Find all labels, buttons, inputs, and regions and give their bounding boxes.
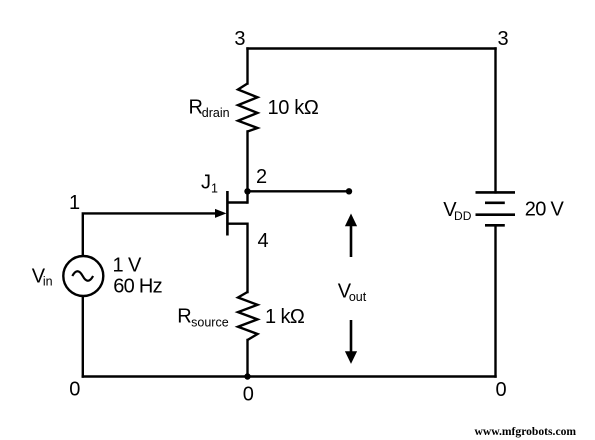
wire left rail: bottom rail up to Vin — [82, 298, 84, 377]
wire source lead down to R_source — [246, 224, 248, 292]
Vout arrow down — [345, 320, 357, 364]
svg-text:4: 4 — [258, 230, 269, 252]
svg-text:0: 0 — [243, 383, 254, 405]
wire R_drain to node 2 — [246, 132, 248, 203]
wire R_source to bottom rail — [246, 340, 248, 377]
wire right rail down to battery — [494, 49, 496, 193]
wire bottom rail node 0 — [83, 375, 496, 377]
node junction dot 0 — [244, 373, 250, 379]
battery V_DD — [476, 192, 516, 225]
resistor R_source — [238, 292, 258, 340]
svg-text:1 V: 1 V — [113, 255, 142, 277]
Vout arrow up — [345, 214, 357, 258]
svg-text:3: 3 — [234, 28, 245, 50]
svg-text:3: 3 — [498, 28, 509, 50]
wire top rail to R_drain — [246, 49, 248, 84]
source lead — [227, 222, 247, 224]
svg-text:www.mfgrobots.com: www.mfgrobots.com — [475, 425, 577, 438]
svg-text:10 kΩ: 10 kΩ — [268, 97, 319, 119]
gate arrowhead of J1 — [215, 209, 227, 218]
resistor R_drain — [238, 84, 258, 132]
svg-text:0: 0 — [496, 379, 507, 401]
wire battery to bottom rail — [494, 225, 496, 376]
svg-text:60 Hz: 60 Hz — [113, 275, 162, 297]
wire node 1: Vin up and right to gate — [83, 213, 216, 254]
source Vin (AC) — [63, 256, 103, 296]
node junction dot 2 — [244, 188, 250, 194]
node dot Vout tap — [346, 188, 352, 194]
wire node 2 to Vout tap — [248, 190, 350, 192]
channel bar — [226, 191, 229, 236]
svg-text:2: 2 — [256, 166, 267, 188]
drain lead — [227, 201, 247, 203]
svg-text:1 kΩ: 1 kΩ — [265, 306, 305, 328]
transistor Q J1 (JFET) — [227, 191, 247, 236]
svg-text:20 V: 20 V — [525, 199, 565, 221]
svg-text:0: 0 — [69, 379, 80, 401]
svg-text:1: 1 — [69, 192, 80, 214]
wire top rail node 3 — [248, 47, 496, 49]
